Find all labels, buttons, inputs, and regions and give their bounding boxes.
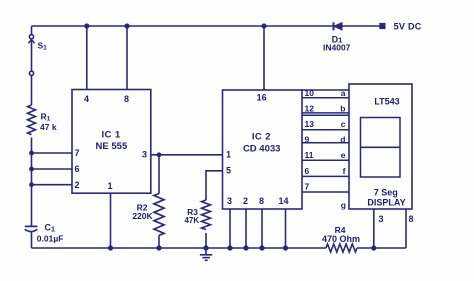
label 5V DC: [394, 21, 422, 31]
svg-text:3: 3: [227, 196, 232, 206]
wire display pin8 to bottom rail: [405, 209, 407, 248]
label R4 470 Ohm: [322, 225, 360, 244]
pin 2 label: [74, 180, 79, 190]
pin 4 label: [84, 94, 89, 104]
svg-text:IN4007: IN4007: [323, 42, 351, 52]
node junction bottom rail ground: [203, 245, 208, 250]
wire left rail R1 to C1: [31, 138, 33, 227]
svg-text:8: 8: [259, 196, 264, 206]
node junction bottom rail IC2 pin8: [259, 245, 264, 250]
svg-text:9: 9: [305, 135, 310, 145]
svg-text:7: 7: [74, 148, 79, 158]
segment b label: [340, 104, 345, 114]
node junction top rail pin8: [124, 23, 129, 28]
svg-text:7: 7: [305, 182, 310, 192]
svg-text:5: 5: [226, 166, 231, 176]
op-amp IC1 NE555 box: [72, 90, 151, 194]
pin 3 label display: [378, 214, 383, 224]
wire IC2 pin5 to R3: [206, 171, 223, 200]
segment e label: [341, 150, 346, 160]
node junction bottom rail pin1: [108, 245, 113, 250]
svg-text:e: e: [341, 150, 346, 160]
node junction left rail pin2: [29, 182, 34, 187]
node junction bottom rail IC2 pin2: [243, 245, 248, 250]
svg-text:IC 2: IC 2: [252, 132, 271, 143]
resistor R4: [326, 244, 357, 252]
pin 14 label IC2: [278, 196, 288, 206]
svg-text:470 Ohm: 470 Ohm: [322, 234, 360, 244]
node 5V DC terminal: [380, 23, 385, 28]
svg-text:0.01µF: 0.01µF: [37, 234, 64, 244]
segment a label: [341, 88, 346, 98]
svg-text:g: g: [341, 200, 346, 210]
pin 3 label: [142, 150, 147, 160]
label LT543: [374, 97, 399, 107]
svg-text:6: 6: [305, 166, 310, 176]
pin 10 label: [305, 88, 315, 98]
wire IC2 pin16 to top rail: [263, 26, 265, 90]
pin 2 label IC2: [243, 196, 248, 206]
svg-text:IC 1: IC 1: [101, 129, 120, 140]
node junction left rail pin7: [29, 151, 34, 156]
wire C1 to bottom rail: [31, 232, 33, 248]
wire IC2 pin14 to bottom rail: [285, 209, 287, 248]
pin 5 label IC2: [226, 166, 231, 176]
node junction R2 top: [157, 152, 162, 157]
svg-text:NE 555: NE 555: [96, 141, 128, 152]
svg-text:2: 2: [74, 180, 79, 190]
pin 7 label bus: [305, 182, 310, 192]
pin 8 label IC2: [259, 196, 264, 206]
svg-text:47 k: 47 k: [40, 122, 57, 132]
pin 13 label: [305, 119, 315, 129]
svg-text:3: 3: [378, 214, 383, 224]
wire IC1 pin6 to left rail: [32, 168, 73, 170]
svg-text:6: 6: [74, 164, 79, 174]
pin 7 label: [74, 148, 79, 158]
svg-text:12: 12: [305, 104, 315, 114]
label D1 IN4007: [323, 35, 351, 53]
svg-text:R1: R1: [41, 112, 51, 123]
wire IC1 pin3 to IC2 pin1: [151, 154, 223, 156]
wire IC1 pin8 to top rail: [126, 26, 128, 90]
node junction bottom rail IC2 pin14: [283, 245, 288, 250]
pin 6 label: [74, 164, 79, 174]
wire R3 bottom lead: [205, 233, 207, 248]
node junction bottom rail display pin3: [371, 245, 376, 250]
ground: [200, 248, 212, 260]
wire R2 top lead: [158, 155, 160, 194]
svg-text:4: 4: [84, 94, 89, 104]
segment c label: [341, 119, 346, 129]
pin 12 label: [305, 104, 315, 114]
svg-text:3: 3: [142, 150, 147, 160]
label 7 Seg DISPLAY: [367, 187, 405, 207]
pin 9 label: [305, 135, 310, 145]
resistor R2: [154, 194, 164, 236]
wire IC2 pin2 to bottom rail: [245, 209, 247, 248]
wire R2 bottom lead: [158, 236, 160, 249]
svg-text:11: 11: [305, 150, 314, 160]
pin 8 label display: [408, 214, 413, 224]
display LT543 box: [349, 84, 412, 209]
node junction bottom rail IC2 pin3: [227, 245, 232, 250]
label IC2 CD4033: [243, 132, 281, 155]
svg-text:1: 1: [107, 181, 112, 191]
resistor R1: [28, 105, 36, 135]
svg-text:10: 10: [305, 88, 315, 98]
pin 1 label: [107, 181, 112, 191]
wire bottom ground rail left: [32, 247, 327, 249]
resistor R3: [202, 200, 211, 230]
seven segment digit glyph: [361, 118, 401, 178]
svg-text:16: 16: [257, 93, 267, 103]
svg-text:DISPLAY: DISPLAY: [367, 197, 405, 207]
svg-text:2: 2: [243, 196, 248, 206]
node junction top rail pin16: [261, 23, 266, 28]
segment f label: [343, 166, 346, 176]
diode D1: [334, 22, 343, 30]
pin 1 label IC2: [226, 150, 231, 160]
wire IC1 pin2 to left rail: [32, 184, 73, 186]
svg-text:a: a: [341, 88, 346, 98]
svg-text:220K: 220K: [132, 211, 153, 221]
svg-text:c: c: [341, 119, 346, 129]
svg-text:47K: 47K: [184, 216, 199, 225]
wire IC1 pin7 to left rail: [32, 152, 73, 154]
svg-text:7 Seg: 7 Seg: [374, 187, 398, 197]
wire display pin3 to bottom rail: [373, 209, 375, 248]
switch S1: [28, 35, 34, 76]
pin 11 label: [305, 150, 314, 160]
segment bus ladder lines IC2 to display: [302, 90, 349, 192]
wire IC2 pin8 to bottom rail: [261, 209, 263, 248]
label R2 220K: [132, 203, 153, 222]
label R1 47 k: [40, 112, 57, 132]
label IC1 NE555: [96, 129, 128, 152]
label R3 47K: [184, 207, 199, 225]
svg-text:13: 13: [305, 119, 315, 129]
wire top supply rail: [32, 25, 381, 27]
wire IC1 pin4 to top rail: [86, 26, 88, 90]
wire IC2 pin3 to bottom rail: [229, 209, 231, 248]
svg-text:b: b: [340, 104, 345, 114]
label C1 0.01uF: [37, 223, 64, 244]
segment d label: [340, 135, 345, 145]
label S1: [38, 41, 48, 52]
pin 6 label: [305, 166, 310, 176]
svg-text:S1: S1: [38, 41, 48, 52]
IC2 CD4033 box: [223, 90, 303, 209]
wire bottom rail right of R4: [357, 247, 406, 249]
svg-text:5V DC: 5V DC: [394, 21, 422, 31]
svg-text:8: 8: [124, 94, 129, 104]
svg-text:f: f: [343, 166, 346, 176]
wire left rail top segment (to switch): [31, 26, 33, 34]
node junction left rail pin6: [29, 167, 34, 172]
svg-text:d: d: [340, 135, 345, 145]
svg-text:14: 14: [278, 196, 288, 206]
pin 8 label: [124, 94, 129, 104]
pin 16 label: [257, 93, 267, 103]
wire switch to R1: [31, 76, 33, 106]
node junction top rail pin4: [84, 23, 89, 28]
capacitor C1: [25, 226, 38, 231]
node junction bottom rail R2: [156, 245, 161, 250]
svg-text:LT543: LT543: [374, 97, 399, 107]
wire IC1 pin1 to bottom rail: [110, 193, 112, 248]
svg-text:1: 1: [226, 150, 231, 160]
segment g label: [341, 200, 346, 210]
pin 3 label IC2: [227, 196, 232, 206]
svg-text:CD 4033: CD 4033: [243, 144, 281, 155]
svg-text:8: 8: [408, 214, 413, 224]
svg-text:C1: C1: [45, 223, 56, 234]
